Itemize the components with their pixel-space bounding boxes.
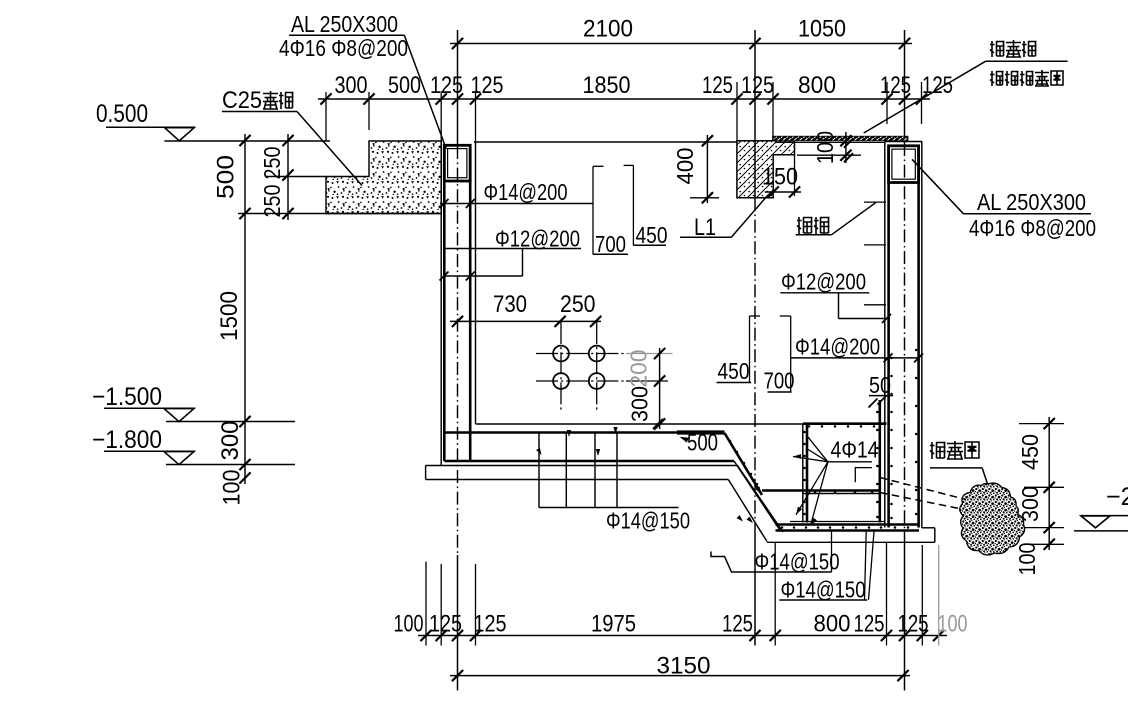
- svg-text:100: 100: [394, 611, 424, 638]
- svg-text:500: 500: [212, 155, 239, 199]
- extension line 100 gray: [938, 545, 940, 646]
- svg-text:Φ12@200: Φ12@200: [495, 226, 580, 252]
- svg-text:125: 125: [922, 72, 953, 99]
- right wall outer face: [921, 142, 923, 528]
- permeable layer blob: [960, 483, 1025, 555]
- slab bottom rebar leader grid: [538, 433, 540, 508]
- left wall inner face: [475, 142, 477, 424]
- left wall outer face: [440, 144, 442, 466]
- row2 ext line: [626, 380, 668, 382]
- right dim 450/300/100: [1048, 417, 1050, 550]
- ladder rungs: [864, 201, 886, 203]
- svg-text:100: 100: [938, 611, 968, 638]
- circles vert dim 200/300: [659, 348, 661, 429]
- pit floor rebar bottom: [776, 529, 920, 532]
- svg-text:Φ14@150: Φ14@150: [606, 508, 690, 534]
- svg-text:1050: 1050: [798, 16, 846, 43]
- circle center lines: [536, 353, 626, 355]
- svg-text:800: 800: [798, 72, 836, 99]
- extension lines bottom: [425, 562, 427, 646]
- svg-text:−2.550: −2.550: [1106, 483, 1128, 511]
- pit top rebar line: [803, 422, 887, 425]
- top dim row1: [450, 43, 912, 45]
- svg-text:Φ14@150: Φ14@150: [781, 577, 866, 603]
- slope slab bottom diagonal: [734, 461, 780, 530]
- pit mid band thin: [803, 493, 880, 495]
- permeable layer label (CJK): [930, 442, 946, 459]
- svg-text:Φ14@200: Φ14@200: [484, 179, 568, 205]
- bent bar 700 no.2: [790, 316, 792, 392]
- floor slab top surface: [476, 423, 803, 425]
- right wall inner face: [884, 142, 886, 528]
- rebar section dots: [808, 425, 811, 428]
- bedding top line: [426, 465, 738, 467]
- extension lines top: [325, 92, 327, 141]
- svg-text:4Φ16 Φ8@200: 4Φ16 Φ8@200: [279, 35, 408, 61]
- svg-text:250: 250: [259, 185, 285, 218]
- beam L1 hatched section: [737, 141, 795, 198]
- svg-text:Φ12@200: Φ12@200: [781, 269, 866, 295]
- svg-text:450: 450: [636, 222, 668, 248]
- pipe sleeves 4 circles: [553, 346, 569, 362]
- label pa ti (ladder CJK): [797, 217, 813, 234]
- tank interior top line: [474, 141, 737, 143]
- bent bar 450 no.1: [632, 165, 634, 245]
- left wall rebar inner: [469, 145, 472, 461]
- svg-text:125: 125: [430, 72, 463, 99]
- svg-text:300: 300: [217, 421, 244, 461]
- pit bedding bottom: [767, 541, 935, 543]
- svg-text:800: 800: [814, 611, 851, 638]
- svg-text:250: 250: [560, 291, 596, 318]
- svg-text:730: 730: [493, 291, 527, 318]
- svg-text:C25: C25: [222, 87, 262, 114]
- left main dim line: [244, 134, 246, 484]
- bottom dim row2 3150: [450, 675, 910, 677]
- svg-text:300: 300: [627, 386, 653, 422]
- svg-text:200: 200: [626, 350, 652, 388]
- ground level line 0.500: [164, 140, 330, 142]
- slope top rebar diagonal: [725, 433, 763, 495]
- floor slab bottom: [444, 460, 734, 462]
- arrow at slope rebar end: [755, 486, 763, 495]
- bottom dim row1: [418, 635, 947, 637]
- right wall top line: [885, 141, 923, 143]
- footing bottom line: [238, 213, 441, 215]
- svg-text:125: 125: [471, 72, 504, 99]
- pit left inner face: [802, 424, 804, 523]
- floor slab top rebar: [444, 431, 724, 434]
- pit mid band rebar: [762, 489, 880, 492]
- svg-text:−1.800: −1.800: [92, 426, 162, 454]
- axis line left wall: [457, 30, 459, 146]
- svg-text:700: 700: [595, 231, 626, 257]
- bedding left edge: [425, 466, 427, 480]
- dim 100 (plate): [845, 132, 847, 163]
- svg-text:50: 50: [869, 372, 891, 398]
- svg-text:500: 500: [687, 430, 718, 457]
- svg-text:125: 125: [702, 72, 733, 99]
- row1 ext line (gray): [626, 353, 673, 355]
- bent bar 700 no.1: [592, 166, 594, 254]
- axis line middle: [754, 30, 756, 198]
- pit bedding right edge: [934, 528, 936, 543]
- svg-text:150: 150: [762, 164, 798, 191]
- svg-text:125: 125: [722, 611, 753, 638]
- svg-text:125: 125: [854, 611, 885, 638]
- svg-text:400: 400: [672, 148, 698, 185]
- right wall top ring beam box: [889, 146, 919, 183]
- dim 730/250 line: [450, 320, 601, 322]
- svg-text:100: 100: [218, 470, 245, 506]
- svg-text:2100: 2100: [583, 16, 633, 43]
- svg-text:Φ14@200: Φ14@200: [795, 334, 880, 360]
- pit bedding top right of wall: [922, 527, 935, 529]
- left wall rebar outer: [443, 145, 446, 461]
- svg-text:1850: 1850: [583, 72, 631, 99]
- svg-text:700: 700: [764, 368, 795, 394]
- svg-text:100: 100: [812, 131, 838, 164]
- svg-text:300: 300: [1017, 486, 1043, 522]
- pit floor top: [790, 521, 885, 523]
- dim 400 (beam): [706, 135, 708, 203]
- stepped footing C25: [326, 141, 441, 214]
- svg-text:125: 125: [429, 611, 462, 638]
- svg-text:450: 450: [1017, 434, 1043, 470]
- svg-text:−1.500: −1.500: [92, 383, 162, 411]
- svg-text:100: 100: [1014, 543, 1040, 576]
- svg-text:AL 250X300: AL 250X300: [977, 189, 1086, 215]
- top dim row2: [318, 98, 930, 100]
- svg-text:0.500: 0.500: [96, 100, 148, 128]
- svg-text:450: 450: [718, 358, 750, 384]
- pit left rebar: [806, 424, 809, 523]
- pit right rebar (wall bar): [878, 400, 881, 523]
- steel cover plate: [773, 136, 909, 141]
- footing step extension line: [265, 176, 326, 178]
- pit floor rebar top: [776, 523, 920, 526]
- svg-text:250: 250: [259, 147, 285, 180]
- label steel cover plate (CJK): [990, 41, 1005, 57]
- svg-text:1500: 1500: [216, 291, 243, 341]
- svg-text:125: 125: [474, 611, 507, 638]
- right wall rebar outer: [917, 146, 920, 528]
- svg-text:125: 125: [880, 72, 911, 99]
- added top bar at slope: [677, 430, 725, 434]
- right wall rebar inner: [887, 146, 890, 528]
- svg-text:300: 300: [335, 72, 368, 99]
- bedding bottom line: [426, 479, 729, 481]
- svg-text:4Φ14: 4Φ14: [831, 437, 879, 463]
- svg-text:500: 500: [388, 72, 421, 99]
- svg-text:4Φ16 Φ8@200: 4Φ16 Φ8@200: [969, 215, 1096, 241]
- bent bar 450 no.2: [749, 316, 751, 383]
- slope bedding top diagonal: [738, 466, 784, 533]
- svg-text:125: 125: [741, 72, 774, 99]
- dim 150 (beam step): [765, 191, 801, 193]
- svg-text:Φ14@150: Φ14@150: [755, 549, 840, 575]
- left wall top ring beam box: [444, 145, 470, 181]
- axis line right wall: [904, 30, 906, 143]
- left secondary dim line: [287, 134, 289, 220]
- slope bedding bottom diagonal: [728, 480, 767, 542]
- svg-text:1975: 1975: [591, 611, 636, 638]
- svg-text:AL 250X300: AL 250X300: [291, 11, 398, 37]
- svg-text:3150: 3150: [657, 653, 711, 680]
- svg-text:125: 125: [898, 611, 929, 638]
- dashed leaders to permeable blob: [880, 478, 966, 500]
